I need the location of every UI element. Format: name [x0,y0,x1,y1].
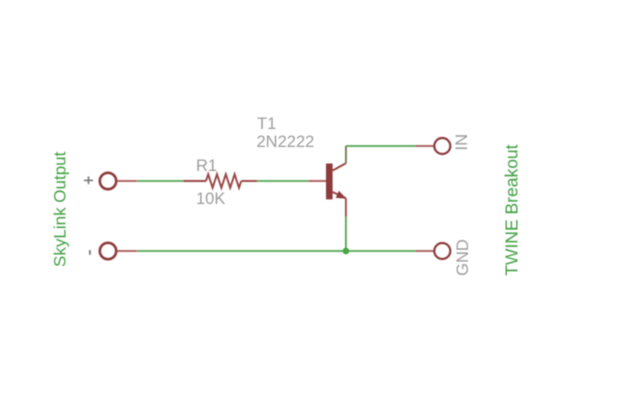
resistor R1 [184,174,258,188]
svg-text:2N2222: 2N2222 [257,133,315,151]
svg-text:TWINE Breakout: TWINE Breakout [502,144,522,275]
terminal GND pad [434,243,450,259]
wire resistor to base [257,180,308,182]
pin of IN terminal [416,145,434,147]
svg-text:GND: GND [454,239,472,276]
svg-text:10K: 10K [196,190,225,208]
pin of connector - [117,250,137,252]
pin of GND terminal [416,250,434,252]
terminal IN pad [434,138,450,154]
wire collector to IN [346,145,416,147]
transistor T1 2N2222 [326,146,346,217]
transistor T1 base pin [308,180,326,182]
minus label [89,250,91,255]
svg-text:R1: R1 [196,157,217,175]
svg-text:T1: T1 [257,115,276,133]
junction node [343,248,350,255]
svg-text:SkyLink Output: SkyLink Output [51,151,70,267]
plus label [84,176,93,184]
pin of connector + [117,180,137,182]
wire plus to resistor [137,180,184,182]
wire emitter down [345,217,347,252]
wire bottom rail [137,250,416,252]
connector J2 pad - [100,243,116,259]
svg-text:IN: IN [453,134,471,151]
connector J1 pad + [100,173,116,189]
